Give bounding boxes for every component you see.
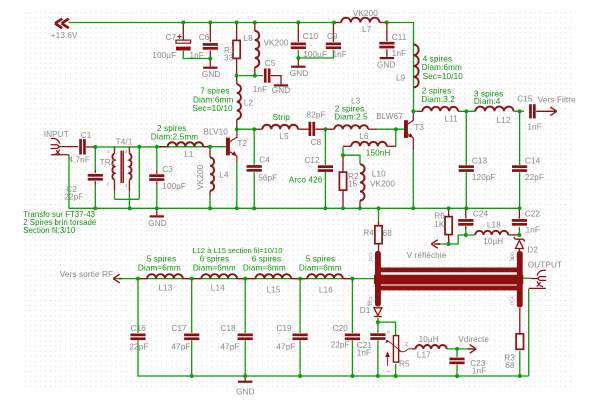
svg-text:1nF: 1nF xyxy=(527,123,541,132)
ground GND at bottom rail xyxy=(238,376,252,383)
svg-text:L16: L16 xyxy=(319,285,333,294)
wire row to C18 xyxy=(244,279,246,333)
junction xyxy=(190,277,194,281)
resistor R2 xyxy=(339,172,346,190)
wire C17 to bottom rail xyxy=(191,340,193,376)
junction xyxy=(411,206,415,210)
svg-text:L10: L10 xyxy=(372,170,386,179)
wire TR1 pin3 lead xyxy=(128,147,130,154)
svg-text:1nF: 1nF xyxy=(526,226,540,235)
svg-text:68: 68 xyxy=(383,229,393,238)
svg-text:T3: T3 xyxy=(414,123,424,132)
svg-text:22pF: 22pF xyxy=(129,343,148,352)
junction xyxy=(253,74,257,78)
wire T2 collector node xyxy=(237,128,257,130)
svg-text:C13: C13 xyxy=(472,156,488,165)
wire R2 bottom lead xyxy=(342,190,344,208)
svg-text:L13: L13 xyxy=(158,284,172,293)
inductor L12 xyxy=(475,107,513,112)
inductor L13 xyxy=(147,274,183,278)
svg-text:C22: C22 xyxy=(525,209,541,218)
diode D1 xyxy=(374,308,382,317)
junction xyxy=(253,21,257,25)
inductor L18 xyxy=(475,231,508,235)
svg-text:VK200: VK200 xyxy=(264,39,289,48)
capacitor C9 xyxy=(326,43,341,50)
svg-text:Diam:3.2: Diam:3.2 xyxy=(421,95,455,104)
svg-text:DC4: DC4 xyxy=(510,296,515,305)
svg-text:C10: C10 xyxy=(303,32,319,41)
svg-text:5 spires: 5 spires xyxy=(306,255,335,264)
svg-text:Sec=10/10: Sec=10/10 xyxy=(423,72,464,81)
svg-text:C6: C6 xyxy=(199,33,210,42)
capacitor C7 electrolytic plates xyxy=(176,34,191,50)
svg-text:L7: L7 xyxy=(362,25,372,34)
svg-text:T4/1: T4/1 xyxy=(116,137,133,146)
wire C3 to ground rail xyxy=(156,185,158,209)
wire C10 bottom lead xyxy=(297,58,299,66)
wire INPUT to C1 xyxy=(67,146,78,148)
svg-text:Diam:2.5: Diam:2.5 xyxy=(334,113,368,122)
transformer TR1 core xyxy=(121,151,123,183)
junction xyxy=(323,127,327,131)
svg-text:L17: L17 xyxy=(417,351,431,360)
wire row to C17 xyxy=(191,279,193,333)
wire L4 to ground rail xyxy=(209,196,211,208)
coupler left end bar xyxy=(375,251,381,307)
svg-text:T2: T2 xyxy=(237,139,247,148)
junction xyxy=(235,21,239,25)
svg-text:OUTPUT: OUTPUT xyxy=(528,261,562,270)
junction xyxy=(190,374,194,378)
junction xyxy=(93,206,97,210)
junction xyxy=(350,374,354,378)
wire L18 right lead xyxy=(508,234,519,236)
junction xyxy=(385,21,389,25)
junction xyxy=(341,153,345,157)
wire TR1 pin1 lead xyxy=(114,147,116,154)
junction xyxy=(377,206,381,210)
wire L14 right lead xyxy=(237,278,245,280)
svg-text:C14: C14 xyxy=(525,156,541,165)
capacitor C11 xyxy=(379,42,394,49)
wire R2 top lead xyxy=(342,155,344,172)
wire C7 bottom to C6 xyxy=(183,51,210,59)
inductor L6 xyxy=(351,142,387,146)
capacitor C13 xyxy=(459,165,474,172)
wire L13 left lead xyxy=(138,278,147,280)
transistor T2 collector xyxy=(230,129,237,141)
svg-text:1nF: 1nF xyxy=(357,349,371,358)
wire C22 bottom to D2 xyxy=(518,227,520,237)
wire L15 right lead xyxy=(291,278,300,280)
capacitor C24 xyxy=(458,219,473,226)
svg-text:Section fil:3/10: Section fil:3/10 xyxy=(23,226,76,235)
capacitor C14 xyxy=(512,165,527,172)
wire C10 bottom to C9 bottom xyxy=(298,50,333,58)
wire C24 top lead xyxy=(465,208,467,218)
junction xyxy=(252,206,256,210)
svg-text:C11: C11 xyxy=(392,33,407,42)
wire C6 bottom lead xyxy=(209,51,211,67)
capacitor C15 xyxy=(529,104,536,118)
svg-text:D2: D2 xyxy=(527,245,538,254)
junction xyxy=(464,206,468,210)
wire L7 right lead xyxy=(380,22,387,24)
wire row to C20 xyxy=(351,279,353,333)
svg-text:GND: GND xyxy=(236,387,255,396)
wire R6 top lead xyxy=(448,208,450,216)
wire R1 top lead xyxy=(236,23,238,41)
inductor L8 xyxy=(255,31,259,67)
wire T2 emitter to ground rail xyxy=(236,161,238,208)
svg-text:VK200: VK200 xyxy=(196,164,205,189)
capacitor C5 xyxy=(264,69,271,83)
wire C2 top lead xyxy=(94,170,96,173)
junction xyxy=(447,206,451,210)
transistor T2 base bar xyxy=(226,138,230,156)
svg-text:C17: C17 xyxy=(171,324,187,333)
wire TR1 pin4 tap down xyxy=(128,191,130,209)
inductor L15 xyxy=(256,274,292,278)
wire row to C16 xyxy=(137,279,139,333)
potentiometer R5 xyxy=(386,336,412,366)
wire output filter row xyxy=(113,278,375,280)
junction xyxy=(464,233,468,237)
junction xyxy=(518,374,522,378)
junction xyxy=(411,109,415,113)
junction xyxy=(296,56,300,60)
wire C1 to T2 base xyxy=(95,146,226,148)
svg-text:L8: L8 xyxy=(244,34,254,43)
svg-text:DC1: DC1 xyxy=(368,252,373,261)
wire C24 bottom stub xyxy=(465,226,467,229)
wire L5 to C8 xyxy=(298,128,309,130)
svg-text:6 spires: 6 spires xyxy=(200,255,229,264)
svg-text:L2: L2 xyxy=(244,99,254,108)
junction xyxy=(235,206,239,210)
svg-text:100µF: 100µF xyxy=(303,50,327,59)
wire L13 right lead xyxy=(183,278,192,280)
svg-text:Strip: Strip xyxy=(273,113,291,122)
wire T3 collector node xyxy=(413,110,417,112)
junction xyxy=(93,145,97,149)
junction xyxy=(447,242,451,246)
capacitor C10 xyxy=(291,43,306,50)
capacitor C1 xyxy=(79,139,86,155)
svg-text:BLW67: BLW67 xyxy=(376,112,403,121)
svg-text:C20: C20 xyxy=(333,324,349,333)
svg-text:C1: C1 xyxy=(81,131,92,140)
ground GND at C10 xyxy=(291,66,305,68)
svg-text:47pF: 47pF xyxy=(220,343,239,352)
svg-text:L6: L6 xyxy=(359,132,369,141)
transistor T3 base bar xyxy=(404,120,408,138)
wire L16 left lead xyxy=(300,278,307,280)
capacitor C22 xyxy=(512,219,527,226)
junction xyxy=(181,21,185,25)
resistor R3 xyxy=(516,334,523,350)
inductor L16 xyxy=(307,274,343,278)
svg-text:L15: L15 xyxy=(267,285,281,294)
svg-text:C5: C5 xyxy=(265,59,276,68)
wire C20 to bottom rail xyxy=(351,340,353,376)
wire R5 pin1 to bottom rail xyxy=(395,364,397,376)
junction xyxy=(298,277,302,281)
svg-text:R4: R4 xyxy=(363,228,374,237)
svg-text:15: 15 xyxy=(348,179,358,188)
wire C8 node to C12 xyxy=(324,131,326,165)
wire L7 left lead xyxy=(334,22,341,24)
junction xyxy=(137,145,141,149)
wire L10 bottom lead xyxy=(359,201,361,209)
inductor L2 xyxy=(237,84,241,119)
svg-text:L12: L12 xyxy=(497,116,511,125)
wire C3 top lead xyxy=(156,170,158,174)
svg-text:4.7nF: 4.7nF xyxy=(69,156,90,165)
wire R5 wiper to L17 xyxy=(412,348,416,350)
svg-text:Diam=6mm: Diam=6mm xyxy=(243,263,286,272)
svg-text:C9: C9 xyxy=(327,32,338,41)
wire R4 bottom lead xyxy=(378,244,380,252)
capacitor C18 xyxy=(238,334,253,341)
svg-text:L1: L1 xyxy=(184,150,194,159)
svg-text:10µH: 10µH xyxy=(483,237,503,246)
wire C5 to ground xyxy=(271,76,281,85)
wire row to C19 xyxy=(299,279,301,333)
svg-text:D1: D1 xyxy=(360,306,371,315)
junction xyxy=(376,374,380,378)
wire L2 top lead xyxy=(236,76,238,85)
connector OUTPUT xyxy=(529,270,547,288)
capacitor C23 xyxy=(449,358,464,365)
svg-text:1nF: 1nF xyxy=(190,51,204,60)
wire bottom ground rail xyxy=(138,340,529,376)
svg-text:1nF: 1nF xyxy=(253,85,267,94)
junction xyxy=(155,145,159,149)
junction xyxy=(252,127,256,131)
wire L3 to T3 base xyxy=(377,128,405,130)
wire transformer bottom loop xyxy=(115,198,140,200)
wire T3 base node down to L6 xyxy=(395,129,397,146)
wire node to L18 xyxy=(449,235,476,244)
capacitor C4 xyxy=(247,165,262,172)
svg-text:22pF: 22pF xyxy=(64,192,83,201)
inductor L4 xyxy=(210,158,214,191)
wire R1/L8 node to C5 xyxy=(239,75,263,77)
transistor T3 emitter xyxy=(408,133,413,149)
svg-text:L18: L18 xyxy=(487,221,501,230)
wire L12 to C15 xyxy=(514,110,525,112)
wire T3 emitter to ground rail xyxy=(412,148,414,208)
wire C14 to ground rail xyxy=(519,172,521,208)
inductor L7 xyxy=(341,18,379,23)
junction xyxy=(518,109,522,113)
ground GND at C11 xyxy=(380,57,394,59)
junction xyxy=(243,277,247,281)
svg-text:BA: BA xyxy=(366,300,371,306)
wire TR1 pin2 down xyxy=(114,191,116,200)
svg-text:INPUT: INPUT xyxy=(44,130,69,139)
wire L17 to Vdirecte node xyxy=(447,348,468,350)
svg-text:L5: L5 xyxy=(279,132,289,141)
capacitor C17 xyxy=(184,334,199,341)
svg-text:10µH: 10µH xyxy=(419,335,439,344)
junction xyxy=(323,206,327,210)
wire C9 top lead xyxy=(332,23,334,43)
wire L5 left lead xyxy=(254,128,262,130)
junction xyxy=(376,320,380,324)
inductor L11 xyxy=(423,107,459,111)
svg-text:22pF: 22pF xyxy=(331,341,350,350)
junction xyxy=(332,21,336,25)
svg-text:GND: GND xyxy=(148,219,167,228)
inductor L9 xyxy=(414,45,419,88)
junction xyxy=(243,374,247,378)
ground GND at C6 xyxy=(203,67,217,69)
svg-text:Arco 426: Arco 426 xyxy=(289,176,323,185)
capacitor C16 xyxy=(130,334,145,341)
junction xyxy=(208,57,212,61)
wire C23 to bottom rail xyxy=(456,365,458,376)
svg-text:TR1: TR1 xyxy=(100,158,116,167)
svg-text:47pF: 47pF xyxy=(276,343,295,352)
wire L11 to L12 xyxy=(458,110,475,112)
wire node to C3 xyxy=(156,147,158,171)
svg-text:C8: C8 xyxy=(311,138,322,147)
svg-text:Diam:6mm: Diam:6mm xyxy=(193,95,233,104)
wire node to C2 xyxy=(94,147,96,170)
wire V reflechie arrow to R6 xyxy=(438,238,449,244)
transistor T3 collector xyxy=(408,111,413,124)
wire C10 top lead xyxy=(297,23,299,43)
inductor L5 xyxy=(262,125,298,129)
svg-text:33: 33 xyxy=(224,54,234,63)
svg-text:C24: C24 xyxy=(473,209,489,218)
svg-text:47pF: 47pF xyxy=(171,343,190,352)
svg-text:5 spires: 5 spires xyxy=(147,255,176,264)
svg-text:22pF: 22pF xyxy=(525,173,544,182)
wire R4 top lead xyxy=(378,221,380,226)
wire L6 right lead xyxy=(387,145,396,147)
svg-text:6 spires: 6 spires xyxy=(252,255,281,264)
wire C6 top lead xyxy=(209,23,211,43)
wire L8 bottom lead xyxy=(254,67,256,76)
svg-text:L11: L11 xyxy=(445,114,459,123)
wire L6 left lead xyxy=(343,145,351,147)
capacitor C6 xyxy=(203,43,218,50)
junction xyxy=(298,374,302,378)
wire C8 to L3 xyxy=(315,128,334,130)
svg-text:Diam:4: Diam:4 xyxy=(474,97,501,106)
svg-text:120pF: 120pF xyxy=(472,173,496,182)
svg-text:Vdirecte: Vdirecte xyxy=(458,335,489,344)
wire C13 to ground rail xyxy=(465,172,467,208)
svg-text:C12: C12 xyxy=(304,156,320,165)
wire TR1 pin2 lead xyxy=(114,180,116,191)
wire TR1 pin4 lead xyxy=(128,180,130,191)
svg-text:L9: L9 xyxy=(396,73,406,82)
net arrow V reflechie xyxy=(431,240,440,249)
svg-text:100pF: 100pF xyxy=(162,182,186,191)
junction xyxy=(455,374,459,378)
wire node to L10 xyxy=(343,155,360,164)
wire C2 bottom lead xyxy=(94,181,96,185)
resistor R6 xyxy=(445,217,452,235)
resistor R1 xyxy=(233,40,240,58)
wire node to C14 xyxy=(519,111,521,165)
junction xyxy=(464,109,468,113)
wire node to C23 xyxy=(456,349,458,357)
svg-text:7 spires: 7 spires xyxy=(200,87,229,96)
wire R1 bottom lead xyxy=(236,58,238,75)
junction xyxy=(517,233,521,237)
transformer TR1 primary winding xyxy=(112,154,114,180)
wire coupler to OUTPUT xyxy=(523,277,531,279)
inductor L1 xyxy=(168,142,204,146)
svg-text:VK200: VK200 xyxy=(370,180,395,189)
junction xyxy=(155,206,159,210)
junction xyxy=(235,127,239,131)
wire D1 to C21 xyxy=(377,318,379,333)
wire L7 to L9 to T3 collector xyxy=(387,23,414,112)
wire coupler to R3 xyxy=(519,308,521,334)
svg-text:R5: R5 xyxy=(399,359,410,368)
wire L15 left lead xyxy=(245,278,255,280)
svg-text:C4: C4 xyxy=(259,156,270,165)
wire L14 left lead xyxy=(192,278,202,280)
junction xyxy=(208,21,212,25)
svg-text:1nF: 1nF xyxy=(472,366,486,375)
svg-text:1nF: 1nF xyxy=(392,49,406,58)
transistor T2 emitter xyxy=(230,151,237,161)
wire L16 right lead xyxy=(343,278,353,280)
wire L11 left lead xyxy=(417,110,423,112)
inductor L3 xyxy=(334,125,368,129)
svg-text:GND: GND xyxy=(377,61,396,70)
wire C11 top lead xyxy=(386,23,388,42)
wire C12 to ground rail xyxy=(324,172,326,208)
coupler top coupled line xyxy=(379,268,520,273)
svg-text:56pF: 56pF xyxy=(258,173,277,182)
wire L2 bottom lead xyxy=(236,119,238,129)
net arrow Vdirecte xyxy=(468,345,477,354)
wire C4 to ground rail xyxy=(253,172,255,208)
svg-text:DC3: DC3 xyxy=(510,252,515,261)
capacitor C20 xyxy=(345,334,360,341)
wire L8 top lead xyxy=(254,23,256,32)
capacitor C2 xyxy=(88,174,103,181)
inductor L14 xyxy=(201,274,237,278)
svg-text:GND: GND xyxy=(290,69,309,78)
svg-text:1nF: 1nF xyxy=(333,50,347,59)
svg-text:Diam:2.5mm: Diam:2.5mm xyxy=(151,132,198,141)
svg-text:2: 2 xyxy=(405,342,408,348)
junction xyxy=(350,277,354,281)
wire rail to R4 xyxy=(378,208,380,221)
junction xyxy=(136,277,140,281)
svg-text:L4: L4 xyxy=(219,171,229,180)
coupler right end bar xyxy=(517,251,523,308)
svg-text:100µF: 100µF xyxy=(152,51,176,60)
svg-text:V réfléchie: V réfléchie xyxy=(407,251,447,260)
wire L1 right lead xyxy=(203,146,210,148)
capacitor C19 xyxy=(293,334,308,341)
supply +13.6V symbol xyxy=(55,19,69,28)
junction xyxy=(208,145,212,149)
connector INPUT xyxy=(51,139,69,155)
wire C22 top lead xyxy=(518,208,520,218)
